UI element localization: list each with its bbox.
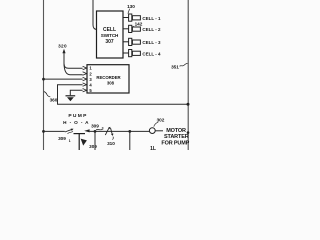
svg-text:CELL - 4: CELL - 4 (142, 51, 161, 56)
node on bus 360 at pin3 wire (42, 78, 45, 81)
label H - O - A (63, 120, 89, 126)
svg-text:RECORDER: RECORDER (96, 75, 121, 80)
svg-text:CELL - 2: CELL - 2 (142, 27, 161, 32)
arrow 309 pointing to pole (81, 139, 98, 149)
svg-text:STARTER: STARTER (164, 134, 189, 140)
svg-text:130: 130 (127, 4, 135, 9)
wire to cell 1 connector (123, 17, 129, 19)
connector (cell 3) (129, 38, 141, 45)
svg-text:308: 308 (107, 80, 115, 85)
svg-text:360: 360 (50, 97, 58, 102)
wire to cell 4 connector (123, 52, 129, 54)
svg-text:FOR PUMP: FOR PUMP (161, 141, 189, 147)
wire (bus 360 to recorder pin 3) (44, 78, 83, 80)
wire (drop from node 95) (94, 131, 96, 150)
svg-text:302: 302 (157, 117, 165, 122)
svg-text:320: 320 (58, 44, 67, 49)
arrowhead pin 1 (83, 66, 87, 69)
motor starter coil 302 (149, 128, 155, 134)
wire to cell 2 connector (123, 28, 129, 30)
label 351 with leader (171, 63, 187, 69)
node on bus 351 (187, 103, 190, 106)
wire (coil to bus 351) (155, 130, 163, 132)
wire (recorder pin 5 to ground) (70, 90, 82, 95)
svg-text:309: 309 (91, 123, 99, 128)
wire (recorder pin 4 to bus 351 via bottom run) (58, 85, 189, 105)
switch arm (A side, arrowhead on wire) (84, 129, 89, 132)
node on bus 360 at pump rung (42, 130, 45, 133)
svg-text:142: 142 (135, 22, 143, 27)
label 142 with leader (132, 22, 143, 28)
wire (320 bundle to recorder pin 1) (64, 53, 83, 69)
switch 309 selector arm (H side) (65, 129, 74, 132)
connector (cell 4) (129, 50, 141, 57)
label 309_3 (91, 123, 104, 130)
arrowhead pin 5 (83, 89, 87, 92)
cell switch 307 (97, 11, 124, 58)
label 360 with leader (44, 92, 58, 103)
node and drop wire at 95 (94, 130, 97, 133)
wire 360 (left vertical bus) (43, 0, 45, 150)
wire 351 (right vertical bus) (187, 0, 189, 150)
svg-text:3: 3 (102, 127, 104, 131)
svg-text:309: 309 (58, 136, 66, 141)
ground (66, 96, 76, 101)
svg-text:307: 307 (105, 39, 114, 45)
label 302 with leader (154, 117, 165, 126)
arrowhead pin 2 (83, 72, 87, 75)
svg-text:1L: 1L (150, 146, 156, 150)
wire (pump rung middle segment) (90, 130, 150, 132)
arrowhead pin 4 (83, 83, 87, 86)
connector (cell 2) (129, 25, 141, 32)
arrowhead pin 3 (83, 77, 87, 80)
svg-text:O: O (74, 120, 78, 125)
wire (pump rung left segment) (44, 130, 65, 132)
svg-text:CELL - 3: CELL - 3 (142, 40, 161, 45)
node and drop wire at 130 (128, 130, 131, 133)
label 320 with up arrow (58, 44, 67, 54)
wire to cell 3 connector (123, 41, 129, 43)
wire (top feed into cell switch) (93, 0, 98, 30)
label 309_1 with leader (58, 131, 73, 143)
svg-text:SWITCH: SWITCH (101, 33, 119, 38)
svg-text:310: 310 (107, 141, 115, 146)
contact 310 (105, 127, 115, 146)
svg-text:CELL: CELL (103, 27, 116, 33)
switch pole (T to pump contactor common) (74, 134, 86, 150)
svg-text:1: 1 (69, 139, 71, 143)
svg-text:309: 309 (89, 144, 97, 149)
label 130 with leader (127, 4, 135, 14)
wire (320 bundle to recorder pin 2) (64, 63, 83, 75)
connector 130 (cell 1) (129, 14, 141, 21)
wire (drop from node 130) (129, 131, 131, 150)
node on bus 351 at rung (187, 131, 190, 134)
recorder 308 (87, 65, 129, 93)
svg-text:PUMP: PUMP (68, 113, 87, 119)
svg-text:351: 351 (171, 64, 179, 69)
label MOTOR STARTER FOR PUMP (161, 128, 189, 147)
svg-text:CELL - 1: CELL - 1 (142, 16, 161, 21)
